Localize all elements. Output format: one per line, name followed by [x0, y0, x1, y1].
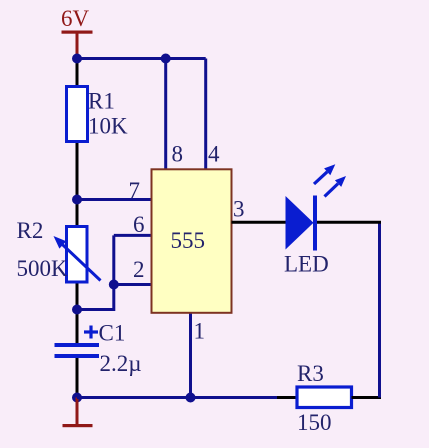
svg-text:1: 1: [194, 319, 206, 344]
power bar (VCC terminal): [62, 31, 93, 34]
wire (red, node F to ground bar): [76, 398, 79, 426]
wire (pin 7 horizontal): [77, 198, 153, 201]
wire (black, R3 right to corner): [352, 396, 382, 399]
LED D1 anode triangle: [286, 196, 314, 250]
wire (node D up to pin 6, L-shape): [77, 235, 114, 309]
wire (main left vertical, black): [76, 59, 79, 345]
wire (pin 2 horizontal): [114, 283, 153, 286]
wire (black, LED cathode to right corner): [317, 221, 381, 224]
resistor R1: [67, 87, 88, 142]
svg-text:8: 8: [172, 142, 184, 167]
wire (pin 6 horizontal): [114, 234, 153, 237]
svg-text:2: 2: [133, 257, 145, 282]
wire (pin 4 vertical): [204, 59, 207, 171]
node C: [72, 195, 82, 205]
capacitor C1: [55, 345, 100, 356]
node D: [72, 305, 82, 315]
node F: [72, 393, 82, 403]
svg-text:R2: R2: [17, 218, 44, 243]
svg-text:150: 150: [297, 410, 332, 435]
wire (right vertical navy): [378, 223, 381, 398]
node E: [109, 280, 119, 290]
svg-text:LED: LED: [284, 252, 329, 277]
IC U1 555 timer body: [152, 169, 232, 312]
svg-text:R1: R1: [88, 89, 115, 114]
svg-text:C1: C1: [99, 321, 126, 346]
wire (pin 3 black horizontal): [232, 221, 287, 224]
potentiometer arrow: [54, 236, 101, 281]
node B: [161, 54, 171, 64]
wire (black, to R3 left): [277, 396, 297, 399]
wire (red, VCC bar to node A): [76, 32, 79, 59]
svg-text:3: 3: [233, 197, 245, 222]
wire (bottom horizontal navy): [77, 396, 277, 399]
LED arrow 1: [314, 164, 335, 184]
wire (top horizontal navy): [77, 57, 206, 60]
wire (pin 8 vertical): [164, 59, 167, 171]
svg-text:555: 555: [171, 228, 206, 253]
wire (black, C1 bottom to node F): [76, 356, 79, 398]
resistor R2 (potentiometer): [67, 227, 88, 283]
ground bar: [63, 424, 93, 427]
LED arrow 2: [325, 176, 347, 197]
svg-text:2.2µ: 2.2µ: [100, 351, 142, 376]
svg-text:6: 6: [133, 212, 145, 237]
LED cathode bar: [313, 196, 317, 251]
svg-text:10K: 10K: [88, 114, 128, 139]
svg-text:6V: 6V: [61, 6, 90, 31]
svg-text:R3: R3: [297, 361, 324, 386]
capacitor C1 plus sign: [84, 326, 98, 339]
svg-text:7: 7: [129, 178, 141, 203]
resistor R3: [297, 387, 352, 408]
svg-text:500K: 500K: [17, 256, 69, 281]
wire (pin 1 vertical): [189, 313, 192, 398]
node G: [186, 393, 196, 403]
svg-text:4: 4: [208, 142, 220, 167]
node A: [72, 54, 82, 64]
